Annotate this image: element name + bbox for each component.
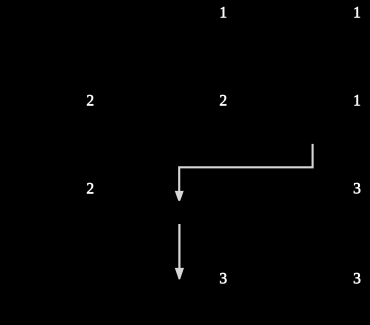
- node r3c3 value 3: [353, 181, 361, 197]
- node r2c3 value 1: [353, 93, 361, 109]
- wire elbow arrow from r2c3 region to r3c2: [179, 144, 312, 192]
- wire straight arrow from r3c2 to r4c2: [178, 224, 180, 269]
- node r1c2 value 1: [219, 5, 227, 21]
- node r4c2 value 3: [219, 271, 227, 287]
- node r1c3 value 1: [353, 5, 361, 21]
- node r3c1 value 2: [86, 181, 94, 197]
- node r4c3 value 3: [353, 271, 361, 287]
- node r2c1 value 2: [86, 93, 94, 109]
- arrowhead of straight arrow: [175, 268, 184, 280]
- node r2c2 value 2: [219, 93, 227, 109]
- arrowhead of elbow arrow: [175, 191, 184, 201]
